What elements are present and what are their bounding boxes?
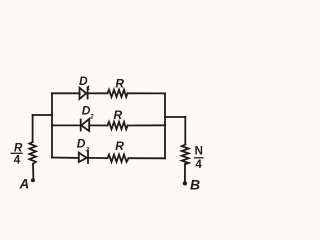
wire left terminal lead <box>32 164 34 179</box>
svg-text:A: A <box>19 176 30 191</box>
resistor R branch2 <box>108 122 128 129</box>
resistor R branch1 <box>108 90 128 97</box>
svg-text:1: 1 <box>87 86 91 92</box>
wire left tap vertical <box>32 115 34 142</box>
wire branch2 mid segment <box>89 124 107 126</box>
wire right terminal lead <box>184 164 186 181</box>
svg-text:R: R <box>115 139 124 153</box>
svg-text:R: R <box>115 77 124 91</box>
wire branch3 left segment <box>52 157 79 159</box>
wire branch1 left segment <box>52 92 80 94</box>
svg-text:B: B <box>190 177 200 193</box>
node A terminal dot <box>31 178 35 182</box>
svg-text:R: R <box>114 108 123 122</box>
resistor R branch3 <box>108 155 129 162</box>
wire branch2 left segment <box>52 124 80 126</box>
node B terminal dot <box>183 181 187 185</box>
wire left bus vertical <box>51 93 53 157</box>
wire branch3 mid segment <box>88 157 108 159</box>
wire branch1 right segment <box>128 92 165 94</box>
svg-text:3: 3 <box>86 147 90 153</box>
wire right tap horizontal <box>165 116 185 118</box>
diode D3 <box>79 153 87 162</box>
svg-text:4: 4 <box>14 153 21 167</box>
wire right bus vertical <box>164 93 166 158</box>
svg-text:N: N <box>195 145 203 157</box>
resistor R/4 <box>29 142 36 164</box>
wire branch3 right segment <box>129 157 166 159</box>
wire right tap vertical <box>184 117 186 145</box>
svg-text:4: 4 <box>195 159 202 171</box>
svg-text:D: D <box>77 137 86 151</box>
diode D1 <box>80 88 87 99</box>
resistor N/4 <box>182 145 189 165</box>
wire branch2 right segment <box>128 124 165 126</box>
svg-text:2: 2 <box>89 114 94 120</box>
wire left tap horizontal <box>33 114 52 116</box>
diode D2 <box>80 120 82 131</box>
wire branch1 mid segment <box>88 92 108 94</box>
